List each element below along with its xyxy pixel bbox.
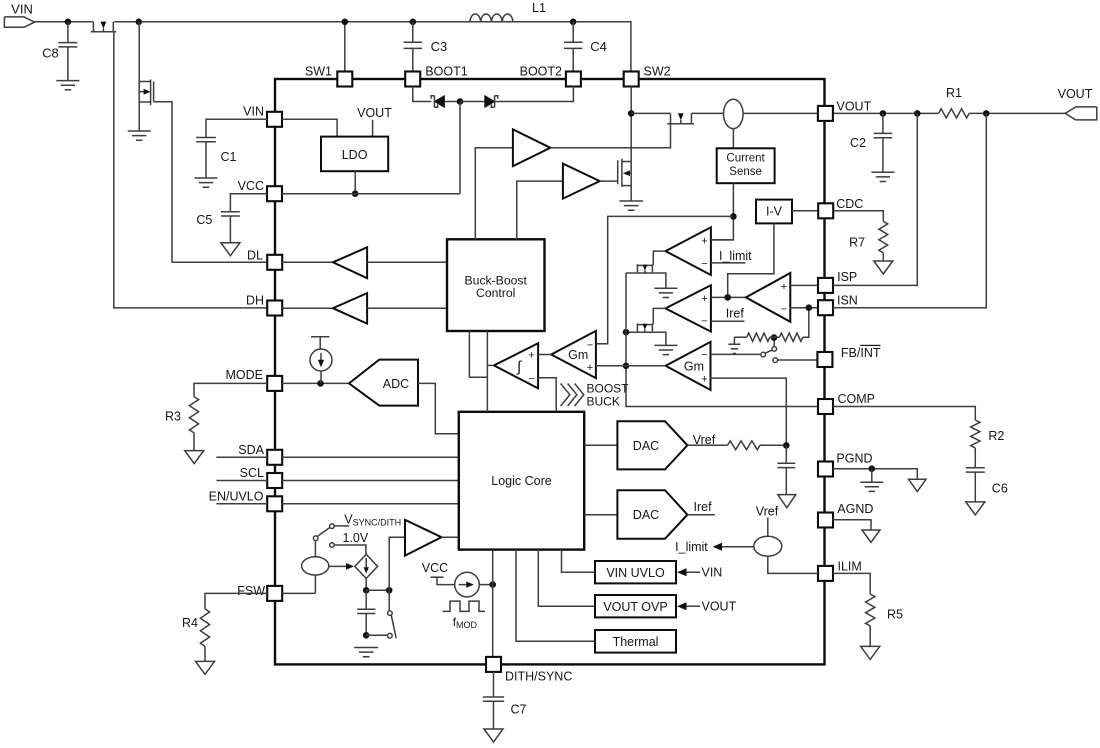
- wire I_limit minus underline: [711, 262, 746, 264]
- junction sense node: [730, 213, 737, 220]
- pin FB/INT label: [841, 346, 881, 360]
- ground below vref cap: [778, 495, 796, 508]
- resistor R2 label: [988, 429, 1004, 443]
- ground below dither cap: [354, 648, 378, 657]
- wire vref stub: [767, 518, 769, 537]
- resistor R3 label: [165, 409, 181, 423]
- svg-text:VIN: VIN: [243, 105, 264, 119]
- wire rail to SW2 corner: [114, 22, 631, 72]
- ground below AGND: [862, 530, 880, 542]
- resistor R4: [200, 593, 267, 661]
- svg-text:+: +: [701, 293, 707, 305]
- svg-text:ISN: ISN: [837, 293, 858, 307]
- svg-text:−: −: [528, 373, 534, 385]
- junction ISN tap: [806, 304, 813, 311]
- wire D2 to BOOT2: [495, 86, 574, 101]
- svg-text:C5: C5: [196, 213, 212, 227]
- svg-text:VIN: VIN: [11, 2, 33, 17]
- op-amp Iref comparator: [666, 285, 711, 331]
- wire Gm2 plus to vref node: [711, 378, 787, 445]
- capacitor C8: [58, 22, 77, 81]
- block I-V: [756, 200, 792, 224]
- transistor Q3 output PMOS: [667, 113, 694, 124]
- wire MODE to ADC: [282, 382, 349, 384]
- capacitor C4: [564, 22, 583, 72]
- svg-text:+: +: [701, 374, 707, 386]
- svg-text:SW2: SW2: [644, 64, 671, 78]
- pin BOOT1 label: [425, 64, 467, 78]
- svg-text:−: −: [701, 349, 707, 361]
- svg-text:FB/INT: FB/INT: [841, 346, 881, 360]
- junction fmod node: [489, 581, 496, 588]
- svg-text:SCL: SCL: [240, 466, 264, 480]
- svg-text:DH: DH: [246, 294, 264, 308]
- capacitor C8 label: [42, 46, 59, 61]
- wire Q2 gate to DL: [154, 102, 268, 262]
- svg-text:DAC: DAC: [633, 508, 659, 522]
- ground below C2: [871, 172, 894, 181]
- wire DH buffer to control: [367, 307, 447, 309]
- wire Gm1 minus: [596, 343, 608, 345]
- svg-text:VOUT OVP: VOUT OVP: [603, 600, 667, 614]
- ground below R7: [874, 261, 893, 274]
- wire VOUT rail: [631, 112, 818, 114]
- junction PGND node: [869, 465, 876, 472]
- wire diff plus to ISP: [790, 284, 818, 286]
- net label 1.0V: [343, 531, 369, 545]
- ground below C8: [56, 81, 79, 90]
- ground small FB: [728, 344, 740, 353]
- svg-text:VOUT: VOUT: [837, 100, 872, 114]
- svg-text:ISP: ISP: [837, 270, 857, 284]
- net label VOUT output: [1058, 87, 1093, 101]
- wire logic to uvlo: [562, 550, 596, 573]
- junction Q2 tap: [136, 19, 143, 26]
- capacitor C3: [404, 22, 423, 72]
- junction boot diode node: [457, 98, 464, 105]
- svg-text:VIN: VIN: [702, 566, 723, 580]
- pin SDA: [267, 450, 282, 465]
- symbol boost-buck chevrons: [561, 384, 584, 407]
- resistor R1: [939, 109, 970, 118]
- junction Q6 trunk: [623, 329, 630, 336]
- capacitor C3 label: [431, 39, 448, 54]
- block Current Sense: [717, 148, 775, 183]
- wire I-V to ilimit minus net: [728, 223, 774, 297]
- diode D2 schottky: [460, 96, 498, 108]
- junction buffer tap: [386, 587, 393, 594]
- junction C2 tap: [880, 110, 887, 117]
- svg-text:BOOST: BOOST: [587, 381, 630, 395]
- svg-text:COMP: COMP: [838, 392, 876, 406]
- resistor internal right: [774, 308, 809, 342]
- svg-text:VOUT: VOUT: [357, 106, 392, 120]
- IC boundary box: [275, 79, 825, 664]
- pin FSW label: [237, 584, 265, 598]
- transistor Q1 input pass FET: [91, 22, 116, 32]
- svg-text:C3: C3: [431, 39, 448, 54]
- waveform fmod label: [453, 615, 478, 630]
- svg-text:DL: DL: [247, 248, 263, 262]
- wire SCL: [217, 480, 459, 482]
- wire I-V to CDC: [792, 210, 818, 212]
- pin SW2 label: [644, 64, 671, 78]
- wire Gm row: [626, 365, 666, 367]
- op-amp I_limit comparator: [666, 227, 711, 275]
- wire integrator minus: [538, 378, 556, 412]
- capacitor C1 label: [221, 150, 237, 164]
- block Logic Core: [459, 412, 584, 550]
- pin DH: [267, 301, 282, 316]
- svg-text:PGND: PGND: [836, 451, 872, 465]
- pin ILIM label: [838, 559, 862, 573]
- current sense ellipse: [724, 99, 744, 128]
- waveform fmod symbol: [443, 601, 486, 611]
- svg-text:L1: L1: [532, 1, 546, 15]
- wire VCC feed to diodes: [459, 102, 461, 194]
- svg-text:R7: R7: [849, 235, 865, 249]
- wire SW2 down: [630, 86, 632, 201]
- block VOUT OVP: [595, 595, 676, 617]
- net label VSYNC/DITH: [344, 513, 401, 528]
- pin SCL label: [240, 466, 264, 480]
- wire logic to thermal: [516, 550, 595, 642]
- svg-text:VCC: VCC: [422, 561, 448, 575]
- wire SDA: [217, 456, 459, 458]
- svg-text:C2: C2: [850, 136, 866, 150]
- wire sync buffer to logic: [442, 536, 459, 538]
- junction SW1 rail tap: [342, 19, 349, 26]
- wire Gm2 minus to switch: [711, 353, 762, 355]
- wire EN/UVLO: [217, 503, 459, 505]
- pin EN/UVLO label: [209, 490, 264, 504]
- wire trunk to COMP: [626, 273, 818, 407]
- svg-text:MODE: MODE: [226, 368, 264, 382]
- wire logic to ovp: [538, 550, 595, 607]
- wire logic to DAC2: [584, 514, 617, 516]
- svg-text:Control: Control: [476, 286, 515, 300]
- pin MODE label: [226, 368, 264, 382]
- ground tri PGND: [909, 479, 927, 491]
- svg-text:LDO: LDO: [342, 148, 368, 162]
- svg-text:BOOT2: BOOT2: [520, 64, 562, 78]
- net label VOUT above LDO: [357, 106, 392, 120]
- resistor R5 label: [887, 608, 903, 622]
- svg-text:DITH/SYNC: DITH/SYNC: [505, 670, 572, 684]
- junction LDO-VCC: [352, 190, 359, 197]
- inductor L1: [470, 14, 513, 22]
- wire Gm1 plus: [596, 365, 626, 367]
- resistor R1 label: [946, 86, 962, 100]
- buffer sync comparator: [405, 520, 442, 556]
- pin EN/UVLO: [267, 496, 282, 511]
- inductor L1 label: [532, 1, 546, 15]
- pin VIN: [267, 112, 282, 127]
- wire ISP to output: [833, 113, 918, 285]
- junction dither cap bottom: [363, 632, 370, 639]
- svg-text:Thermal: Thermal: [613, 635, 659, 649]
- svg-text:ILIM: ILIM: [838, 559, 862, 573]
- svg-text:Gm: Gm: [684, 359, 704, 373]
- pin SW1 label: [305, 65, 332, 79]
- svg-text:CDC: CDC: [836, 197, 863, 211]
- wire ISN to output: [833, 113, 987, 307]
- svg-text:VOUT: VOUT: [1058, 87, 1093, 101]
- pin ISN: [818, 300, 833, 315]
- pin COMP: [818, 399, 833, 414]
- svg-text:SDA: SDA: [238, 443, 264, 457]
- svg-text:Current: Current: [726, 153, 765, 165]
- ground below C6: [966, 502, 985, 515]
- ground below C5: [221, 243, 240, 256]
- junction vref node: [783, 442, 790, 449]
- svg-text:R5: R5: [887, 608, 903, 622]
- pin AGND label: [837, 502, 873, 516]
- block Buck-Boost Control: [447, 239, 545, 331]
- transistor Q2 input NMOS: [139, 22, 153, 131]
- capacitor vref filter: [777, 445, 795, 494]
- junction SW2 node: [628, 110, 635, 117]
- pin ISP label: [837, 270, 857, 284]
- ground below Q6: [654, 345, 677, 354]
- pin BOOT2 label: [520, 64, 562, 78]
- wire sense to box: [732, 129, 734, 149]
- svg-text:+: +: [587, 362, 593, 374]
- svg-text:Sense: Sense: [729, 166, 762, 178]
- pin VOUT: [818, 106, 833, 121]
- ground bars PGND: [860, 469, 883, 492]
- wire DL pin to buffer: [282, 261, 333, 263]
- svg-text:−: −: [781, 304, 787, 316]
- ground below Q2: [128, 131, 151, 140]
- wire control elbow: [469, 331, 487, 377]
- capacitor C2 label: [850, 136, 866, 150]
- ground below R4: [196, 661, 215, 674]
- wire Q1 gate to DH: [114, 32, 268, 308]
- buffer high gate driver: [513, 129, 551, 166]
- buffer DL driver: [333, 247, 367, 278]
- junction MODE node: [317, 380, 324, 387]
- svg-text:−: −: [701, 315, 707, 327]
- svg-text:C4: C4: [590, 39, 607, 54]
- wire Iref plus input: [711, 296, 746, 298]
- wire buffer1 to PMOS gate: [550, 124, 670, 148]
- pin PGND: [818, 462, 833, 477]
- current source bias: [310, 337, 332, 384]
- svg-text:DAC: DAC: [633, 439, 659, 453]
- resistor R4 label: [182, 616, 198, 630]
- wire integrator plus: [538, 354, 551, 356]
- net label I_limit small: [675, 540, 708, 554]
- switch FB select: [761, 338, 818, 363]
- pin ILIM: [818, 566, 833, 581]
- op-amp integrator: [494, 343, 538, 388]
- wire AGND right: [833, 520, 871, 530]
- svg-text:VOUT: VOUT: [702, 600, 737, 614]
- wire VIN rail top: [35, 21, 94, 23]
- current source ilim: [754, 536, 782, 556]
- wire sense node left: [596, 216, 734, 343]
- svg-text:C7: C7: [511, 703, 527, 717]
- net label BUCK: [587, 395, 620, 409]
- wire ilim source to pin: [768, 556, 818, 573]
- wire Q5 to ground: [654, 273, 666, 288]
- resistor R7: [833, 211, 888, 261]
- pin PGND label: [836, 451, 872, 465]
- pin COMP label: [838, 392, 876, 406]
- switch VSYNC contact: [330, 524, 350, 529]
- switch dither shorting: [366, 590, 396, 638]
- pin CDC: [818, 203, 833, 218]
- pin FB/INT: [817, 352, 832, 367]
- pin DL label: [247, 248, 263, 262]
- wire VOUT into OVP: [677, 602, 700, 610]
- wire to small ground: [733, 337, 735, 344]
- junction ISN tap top: [983, 110, 990, 117]
- wire Iref output: [653, 308, 665, 324]
- resistor vref filter: [728, 441, 761, 450]
- svg-text:BOOT1: BOOT1: [425, 64, 467, 78]
- net label Vref source: [756, 504, 779, 518]
- junction FB resistor node: [771, 334, 778, 341]
- ground below R3: [185, 451, 204, 464]
- junction trunk Gm node: [623, 363, 630, 370]
- resistor R5: [833, 573, 875, 646]
- wire integrator output: [487, 364, 494, 366]
- capacitor C2: [874, 113, 893, 171]
- wire osc to diamond arrow: [329, 563, 354, 570]
- svg-text:I_limit: I_limit: [675, 540, 708, 554]
- svg-text:R2: R2: [988, 429, 1004, 443]
- wire diamond down: [365, 578, 367, 590]
- wire DAC2 out: [687, 514, 715, 516]
- wire DH pin to buffer: [282, 307, 333, 309]
- wire control to buffer1: [475, 148, 513, 240]
- net label Vref: [693, 433, 716, 447]
- wire VIN into UVLO: [677, 568, 700, 576]
- svg-text:AGND: AGND: [837, 502, 873, 516]
- wire VOUT stub to LDO: [372, 120, 374, 137]
- net label VIN right: [702, 566, 723, 580]
- svg-text:FSW: FSW: [237, 584, 265, 598]
- node VOUT output tag: [1065, 107, 1097, 120]
- junction C3 tap: [410, 19, 417, 26]
- junction C4 tap: [570, 19, 577, 26]
- pin VCC: [267, 186, 282, 201]
- svg-text:I-V: I-V: [766, 205, 783, 219]
- pin VOUT label: [837, 100, 872, 114]
- wire BOOT1 to diode D1: [413, 86, 431, 101]
- transistor Q6 clamp FET: [636, 323, 654, 332]
- wire VIN pin to LDO: [282, 119, 337, 136]
- ground below Q5: [654, 288, 677, 297]
- buffer DH driver: [333, 293, 367, 324]
- capacitor C5: [221, 194, 267, 243]
- block DAC Vref: [617, 421, 687, 469]
- block LDO: [321, 137, 388, 172]
- transistor Q4 output NMOS: [618, 159, 632, 187]
- svg-text:Iref: Iref: [694, 500, 713, 514]
- svg-text:Gm: Gm: [568, 348, 588, 362]
- pin VIN label: [243, 105, 264, 119]
- pin BOOT2: [566, 72, 581, 87]
- capacitor C7 label: [511, 703, 527, 717]
- op-amp Iref label: [726, 306, 745, 320]
- capacitor C7: [483, 672, 504, 729]
- ground below R5: [861, 646, 880, 659]
- svg-text:R1: R1: [946, 86, 962, 100]
- svg-text:Vref: Vref: [756, 504, 779, 518]
- current source fmod: [431, 572, 493, 597]
- resistor R3: [189, 383, 267, 450]
- resistor R2 capacitor C6: [833, 407, 985, 502]
- wire vref node: [760, 444, 786, 446]
- capacitor C6 label: [992, 482, 1008, 496]
- svg-text:+: +: [701, 235, 707, 247]
- svg-text:1.0V: 1.0V: [343, 531, 369, 545]
- switch 1.0V contact: [330, 543, 366, 555]
- wire to sync buffer: [389, 537, 405, 590]
- wire logic to DITH pin: [492, 550, 494, 658]
- wire buffer2 to NMOS gate: [600, 180, 618, 182]
- svg-text:ADC: ADC: [383, 377, 409, 391]
- switch mode select pole: [313, 527, 330, 540]
- pin DH label: [246, 294, 264, 308]
- pin DITH/SYNC label: [505, 670, 572, 684]
- transistor Q5 clamp FET: [636, 264, 654, 273]
- dependent source diamond: [355, 554, 378, 578]
- ground below C7: [484, 729, 503, 742]
- pin AGND: [818, 513, 833, 528]
- pin ISN label: [837, 293, 858, 307]
- pin ISP: [818, 278, 833, 293]
- svg-text:C6: C6: [992, 482, 1008, 496]
- wire I_limit output: [653, 251, 665, 265]
- block VIN UVLO: [595, 561, 676, 583]
- svg-text:−: −: [701, 258, 707, 270]
- wire diff minus to ISN: [790, 307, 818, 309]
- pin SW1: [337, 22, 352, 87]
- wire control to integrator: [486, 331, 488, 412]
- wire DAC1 out: [687, 444, 727, 446]
- node VIN input tag: [4, 17, 34, 27]
- junction Iref plus node: [724, 294, 731, 301]
- junction C8 tap: [65, 19, 72, 26]
- op-amp Gm1: [551, 331, 596, 378]
- pin BOOT1: [405, 72, 420, 87]
- capacitor C4 label: [590, 39, 607, 54]
- wire I_limit plus input: [711, 239, 734, 241]
- resistor internal left: [734, 333, 774, 341]
- svg-text:BUCK: BUCK: [587, 395, 620, 409]
- net label BOOST: [587, 381, 630, 395]
- wire Iref minus underline: [711, 320, 745, 322]
- junction ISP tap: [914, 110, 921, 117]
- oscillator ellipse: [302, 541, 329, 594]
- block DAC Iref: [617, 490, 687, 539]
- wire PGND right: [833, 469, 918, 480]
- svg-text:Iref: Iref: [726, 306, 745, 320]
- wire Q6 to ground: [654, 332, 666, 345]
- pin SDA label: [238, 443, 264, 457]
- wire dither node right: [366, 589, 389, 591]
- net label VIN: [11, 2, 33, 17]
- wire FSW to oscillator: [282, 592, 315, 594]
- svg-text:VIN UVLO: VIN UVLO: [606, 566, 665, 580]
- svg-text:R3: R3: [165, 409, 181, 423]
- wire R1 to VOUT tag: [969, 112, 1065, 114]
- svg-text:C1: C1: [221, 150, 237, 164]
